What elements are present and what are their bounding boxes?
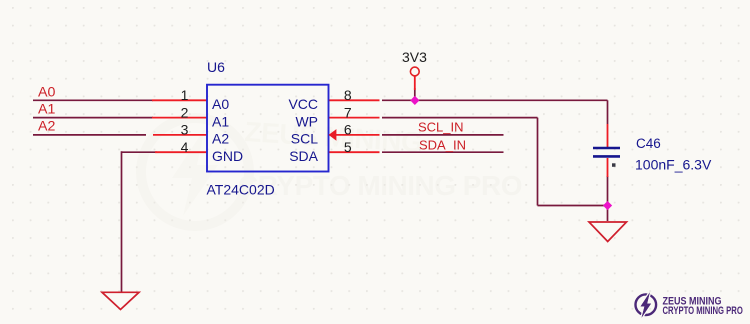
svg-text:CRYPTO MINING PRO: CRYPTO MINING PRO: [663, 305, 743, 318]
svg-text:A1: A1: [38, 101, 55, 117]
svg-text:A1: A1: [212, 113, 229, 129]
svg-text:A0: A0: [38, 85, 55, 101]
svg-text:U6: U6: [207, 59, 225, 75]
svg-text:C46: C46: [636, 136, 661, 151]
svg-text:A0: A0: [212, 96, 229, 112]
svg-text:1: 1: [181, 87, 189, 103]
svg-text:GND: GND: [212, 148, 243, 164]
svg-text:4: 4: [181, 139, 189, 155]
svg-text:A2: A2: [212, 131, 229, 147]
svg-text:5: 5: [344, 139, 352, 155]
svg-text:VCC: VCC: [288, 96, 318, 112]
svg-text:8: 8: [344, 87, 352, 103]
svg-text:SDA_IN: SDA_IN: [419, 138, 466, 153]
svg-text:SDA: SDA: [289, 148, 318, 164]
svg-text:7: 7: [344, 104, 352, 120]
svg-text:SCL_IN: SCL_IN: [418, 120, 464, 135]
svg-text:WP: WP: [295, 113, 318, 129]
svg-text:AT24C02D: AT24C02D: [207, 182, 275, 198]
svg-text:3V3: 3V3: [402, 49, 427, 65]
svg-text:6: 6: [344, 122, 352, 138]
svg-text:100nF_6.3V: 100nF_6.3V: [635, 157, 712, 173]
svg-text:CRYPTO MINING PRO: CRYPTO MINING PRO: [238, 170, 522, 201]
svg-text:SCL: SCL: [291, 131, 318, 147]
svg-text:3: 3: [181, 122, 189, 138]
svg-text:A2: A2: [38, 119, 55, 135]
svg-text:2: 2: [181, 104, 189, 120]
